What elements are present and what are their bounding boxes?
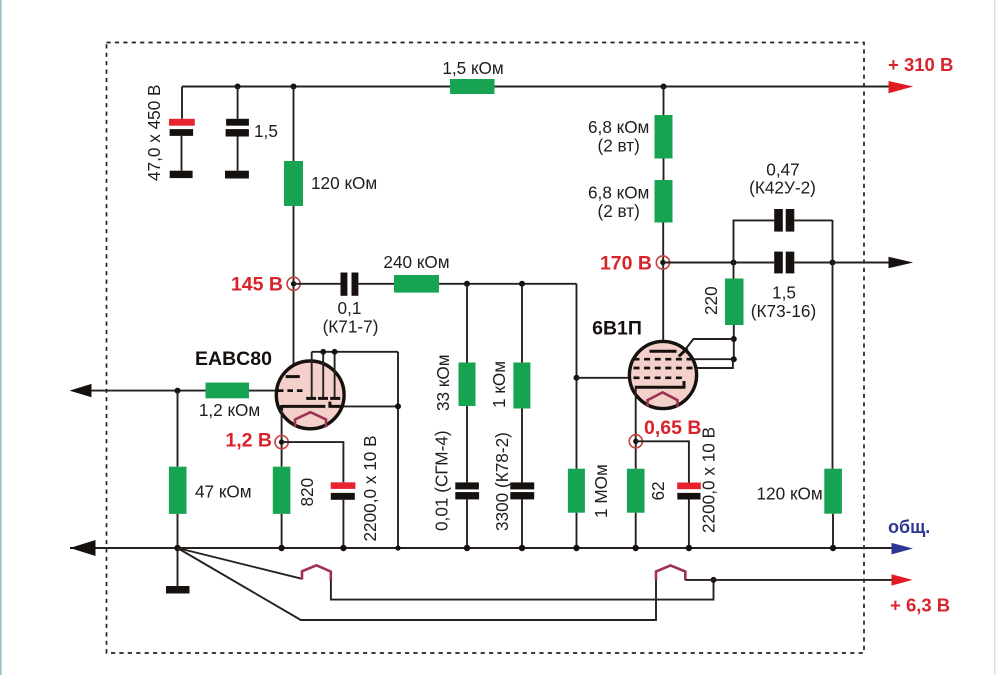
capacitor 0,47 (К42У-2) [774, 209, 783, 232]
scan edge right [994, 0, 995, 675]
ground bar under 1,5 cap [225, 171, 249, 179]
svg-text:220: 220 [701, 286, 721, 315]
tube EABC80 envelope [276, 361, 344, 429]
svg-text:0,01 (СГМ-4): 0,01 (СГМ-4) [432, 430, 452, 531]
svg-text:+ 6,3 В: + 6,3 В [890, 595, 950, 616]
resistor 220 [725, 279, 744, 326]
g2 tick [679, 348, 688, 356]
capacitor 1,5 (К73-16) [774, 252, 783, 274]
capacitor 0,1 (К71-7) [341, 273, 348, 296]
wire loop down to 120k column [832, 220, 834, 469]
svg-text:1,5: 1,5 [254, 121, 278, 141]
scan edge left [0, 0, 2, 675]
grid g2 dashes [634, 358, 698, 361]
wire node to C2200 [282, 442, 344, 482]
node rail C2200 right [686, 545, 692, 551]
node cathode/strap [395, 403, 401, 409]
capacitor 47,0 x 450 В [169, 119, 195, 126]
arrow +310V [889, 81, 914, 93]
svg-text:6,8 кОм: 6,8 кОм [588, 183, 649, 203]
svg-text:62: 62 [648, 481, 668, 500]
svg-text:170 В: 170 В [600, 253, 652, 275]
left arrow ground rail [70, 540, 96, 556]
wire 145V node to C 0,1 [294, 283, 341, 285]
wire heater diagonal 2 [178, 548, 657, 620]
node top rail / R 6.8k chain [661, 84, 667, 90]
capacitor 2200,0 x 10 В (right) [677, 483, 701, 490]
wire between 6.8k resistors [663, 159, 665, 181]
capacitor 1,5 [226, 119, 249, 126]
resistor 6,8 кОм (2 вт) upper [655, 115, 673, 159]
wire heater diagonal 1 [178, 548, 303, 579]
node branch 0,47 loop [731, 260, 737, 266]
svg-text:(2 вт): (2 вт) [597, 136, 639, 156]
wire cap 3300 to ground rail [521, 499, 523, 548]
wire heater supply [685, 579, 892, 581]
wire cathode B out [344, 405, 398, 407]
svg-text:(К42У-2): (К42У-2) [749, 178, 816, 198]
wire 120k to ground rail [832, 514, 834, 548]
resistor 240 кОм [394, 275, 439, 293]
svg-text:1,5: 1,5 [772, 283, 796, 303]
heater jump 1 [302, 565, 331, 580]
resistor 47 кОм [169, 467, 187, 514]
wire cathode lead down [281, 409, 283, 467]
resistor 1 кОм [513, 363, 530, 409]
ground bar [166, 586, 190, 594]
svg-text:6В1П: 6В1П [592, 318, 642, 340]
diode anode bar 1 [306, 397, 316, 400]
node top rail / C1 [235, 84, 241, 90]
wire input to R 1,2k [91, 390, 206, 392]
svg-text:0,65 В: 0,65 В [644, 417, 701, 439]
wire R120k to node 145V [293, 206, 295, 376]
wire strap down right side [397, 352, 399, 548]
svg-text:1 кОм: 1 кОм [489, 361, 509, 408]
cathode bar A EABC80 [282, 405, 326, 411]
ground rail [70, 547, 892, 549]
cathode bar 6В1П [635, 381, 684, 389]
wire g2 tap horizontal [684, 339, 734, 351]
wire g2 row out [694, 358, 734, 360]
svg-text:47,0 x 450 В: 47,0 x 450 В [144, 84, 164, 181]
node 1k top [519, 281, 525, 287]
svg-text:1,5 кОм: 1,5 кОм [442, 58, 503, 78]
node rail 820 [278, 545, 284, 551]
node strap lead2 [320, 349, 326, 355]
wire to node 170V [662, 223, 664, 351]
resistor 6,8 кОм (2 вт) lower [655, 180, 673, 223]
wire grid column of 6В1П [576, 284, 578, 469]
arrow output [889, 257, 914, 269]
diode anode bar 2 [318, 397, 328, 400]
node rail C0,01 [464, 545, 470, 551]
node g3 tap [731, 356, 737, 362]
wire electrolytic C 47,0 drop [181, 87, 183, 119]
capacitor 0,01 (СГМ-4) [455, 482, 479, 489]
wire output [794, 262, 889, 264]
wire 6.8k chain top [663, 87, 665, 116]
wire C2200 right to ground rail [688, 499, 690, 548]
node g2 tap [731, 336, 737, 342]
node rail R62 [633, 545, 639, 551]
plate bar EABC80 [286, 375, 300, 378]
wire diode strap top [312, 351, 398, 353]
diode anode lead 2 [322, 352, 324, 397]
resistor 120 кОм (right) [824, 469, 842, 514]
wire C 1,5 drop [237, 87, 239, 119]
svg-text:+ 310 В: + 310 В [888, 54, 953, 75]
svg-text:120 кОм: 120 кОм [757, 484, 823, 504]
resistor 1 МОм [568, 469, 585, 513]
left arrow input [70, 384, 92, 397]
svg-text:145 В: 145 В [231, 274, 283, 296]
node 33k top [464, 281, 470, 287]
wire 170V node to output cap [663, 262, 774, 264]
wire 1МОм to ground rail [576, 513, 578, 548]
svg-text:3300 (К78-2): 3300 (К78-2) [492, 432, 512, 531]
tube 6В1П envelope [629, 341, 696, 408]
svg-text:33 кОм: 33 кОм [433, 354, 453, 411]
ground bar under 47,0 cap [170, 171, 193, 178]
wire 47k column [177, 391, 179, 467]
node heater junction [711, 577, 717, 583]
wire loop up [734, 220, 775, 262]
node loop rejoin [830, 260, 836, 266]
svg-text:EABC80: EABC80 [195, 348, 272, 370]
plate bar 6В1П [650, 350, 677, 353]
svg-text:(К73-16): (К73-16) [751, 301, 816, 321]
svg-text:120 кОм: 120 кОм [311, 173, 377, 193]
svg-text:(2 вт): (2 вт) [597, 201, 639, 221]
wire g2 branch down to R220 [733, 263, 735, 279]
diode anode lead 1 [311, 352, 313, 397]
grid g3 dashes [634, 367, 695, 370]
wire 1k column top [521, 284, 523, 363]
node top rail / R 120k [291, 84, 297, 90]
wire R220 to tube taps [733, 325, 735, 361]
dashed frame [107, 43, 865, 654]
node rail diode strap [395, 545, 400, 550]
svg-text:47 кОм: 47 кОм [195, 482, 252, 502]
resistor 33 кОм [459, 363, 476, 407]
node 1,2 В [275, 436, 288, 449]
wire ground stub [177, 548, 179, 586]
node strap lead3 [332, 349, 338, 355]
svg-text:820: 820 [297, 478, 317, 507]
svg-text:0,1: 0,1 [338, 298, 362, 318]
wire loop right [794, 219, 832, 221]
wire R62 to ground rail [635, 513, 637, 548]
resistor 820 [273, 467, 291, 514]
wire to R 120k [293, 87, 295, 162]
resistor 62 [627, 469, 645, 513]
svg-text:2200,0 x 10 В: 2200,0 x 10 В [360, 435, 380, 541]
cathode bar B EABC80 [330, 402, 344, 408]
node rail 1МОм [573, 545, 579, 551]
wire 33k to cap 0,01 [466, 406, 468, 482]
wire top +310V rail [182, 86, 889, 88]
node input / 47k [175, 388, 181, 394]
heater jump 2 [656, 565, 685, 580]
wire node to C2200 right [636, 441, 689, 482]
resistor 1,5 кОм [450, 79, 495, 94]
node rail 120k [830, 545, 836, 551]
wire R1,2k to tube grid [249, 390, 276, 392]
wire cathode lead 6В1П [635, 389, 637, 469]
wire 33k column top [466, 284, 468, 363]
svg-text:2200,0 x 10 В: 2200,0 x 10 В [699, 427, 719, 533]
svg-text:240 кОм: 240 кОм [383, 252, 449, 272]
grid dashes EABC80 [278, 389, 304, 392]
wire C2200 to ground rail [342, 500, 344, 548]
wire heater 1 return [331, 580, 714, 600]
diode anode lead 3 [334, 352, 336, 397]
node rail 47k [174, 545, 180, 551]
diode anode bar 3 [330, 397, 340, 400]
capacitor 3300 (К78-2) [510, 482, 534, 489]
svg-text:(К71-7): (К71-7) [323, 317, 379, 337]
grid g1 dashes [634, 376, 687, 379]
wire grid tap to tube [577, 377, 630, 379]
wire R820 to ground rail [281, 514, 283, 548]
arrow общ. [892, 543, 914, 555]
svg-text:общ.: общ. [888, 517, 930, 537]
svg-text:1,2 кОм: 1,2 кОм [199, 400, 260, 420]
node rail C2200 left [340, 545, 346, 551]
node 145 В [287, 277, 300, 290]
wire 47k to ground rail [177, 514, 179, 548]
svg-text:1,2 В: 1,2 В [225, 430, 272, 452]
arrow +6,3 В [892, 574, 913, 585]
resistor 1,2 кОм [206, 383, 250, 399]
node grid tap [574, 375, 580, 381]
svg-text:1 МОм: 1 МОм [591, 464, 611, 518]
wire 1k to cap 3300 [521, 409, 523, 483]
capacitor 2200,0 x 10 В (left) [331, 482, 356, 489]
svg-text:0,47: 0,47 [766, 160, 799, 180]
heater 6В1П [648, 392, 678, 407]
wire g3 jog [695, 359, 733, 368]
heater EABC80 [295, 412, 326, 427]
svg-text:6,8 кОм: 6,8 кОм [588, 117, 649, 137]
wire R240k to grid column [439, 283, 577, 285]
resistor 120 кОм [284, 161, 303, 206]
wire C0,1 to R 240k [358, 283, 394, 285]
node 0,65 В [629, 435, 642, 448]
wire cap 0,01 to ground rail [466, 499, 468, 548]
node 170 В [656, 256, 669, 269]
node rail C3300 [519, 545, 525, 551]
